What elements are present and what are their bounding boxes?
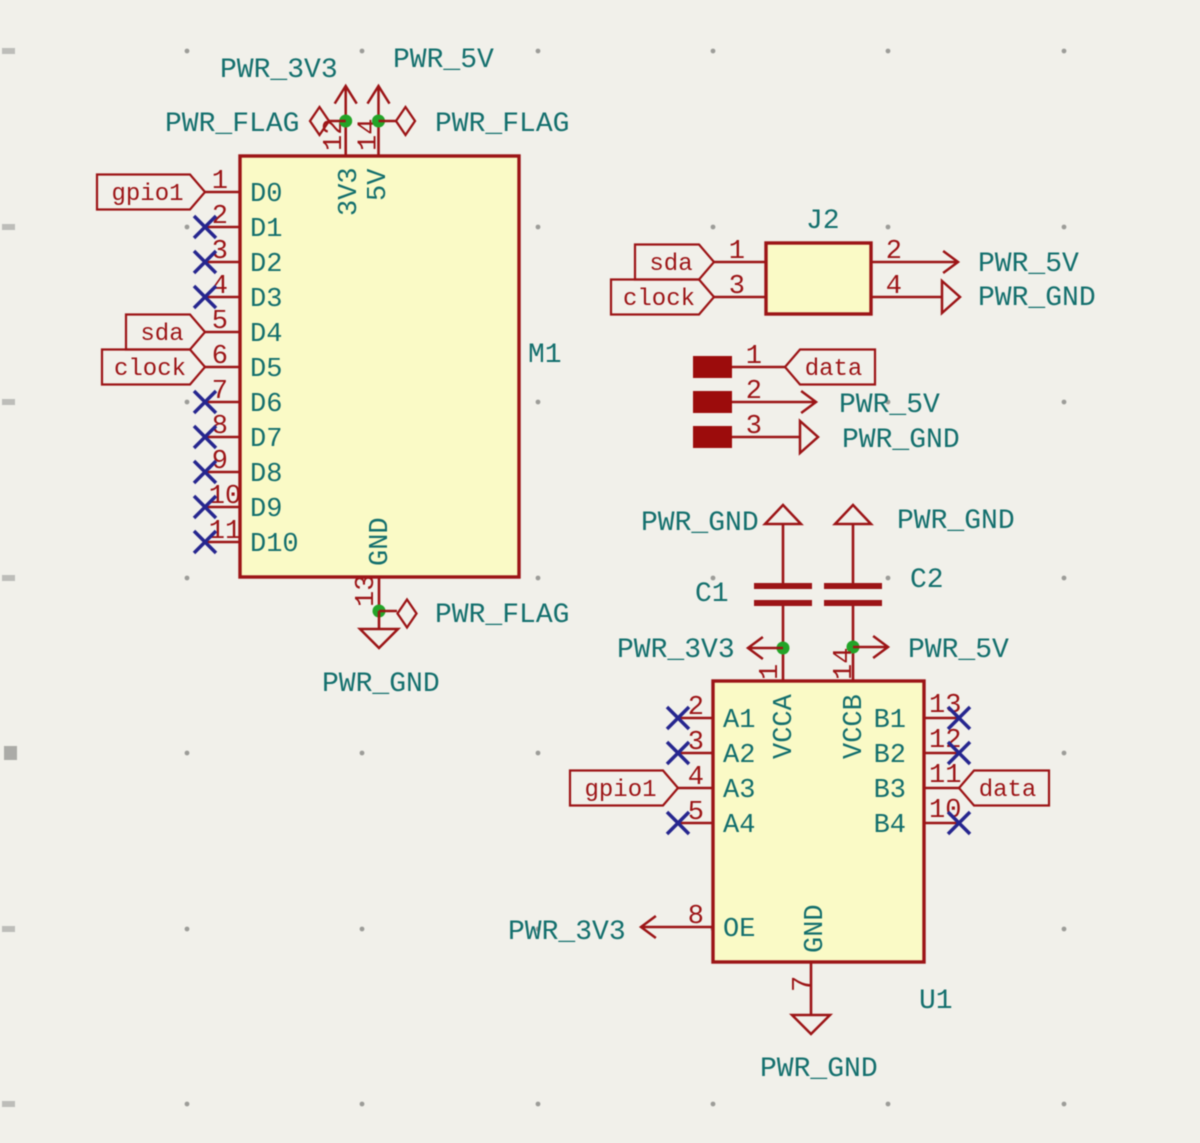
reference designator C2 <box>910 565 944 596</box>
svg-text:M1: M1 <box>528 340 562 371</box>
pad pin number 2 <box>746 377 762 407</box>
M1 pin 2 stub <box>205 226 240 229</box>
reference designator U1 <box>919 986 953 1017</box>
U1 pin 2 stub <box>678 717 713 720</box>
U1 pin number 13 <box>929 691 961 721</box>
no-connect X on U1 pin 10 <box>948 812 970 834</box>
label PWR_GND below U1 <box>760 1054 878 1085</box>
svg-text:B4: B4 <box>874 811 906 841</box>
power symbol PWR_5V at J2 pin 2 <box>906 251 958 273</box>
J2 pin 3 stub <box>714 296 766 299</box>
component J2 body <box>766 243 871 314</box>
U1 pin number 4 <box>688 763 704 793</box>
M1 pin 1 stub <box>205 191 240 194</box>
M1 pin name D3 <box>250 285 282 315</box>
svg-text:C2: C2 <box>910 565 944 596</box>
connector pad 3 <box>693 426 732 448</box>
M1 pin 7 stub <box>205 401 240 404</box>
net label clock (M1 pin 6) <box>102 350 205 385</box>
U1 pin number 10 <box>929 796 961 826</box>
wire J2 pin4 to PWR_GND <box>906 296 942 299</box>
M1 pin 3 stub <box>205 261 240 264</box>
svg-text:PWR_3V3: PWR_3V3 <box>508 917 626 948</box>
svg-text:PWR_GND: PWR_GND <box>897 506 1015 537</box>
svg-text:D2: D2 <box>250 250 282 280</box>
power symbol PWR_GND at J2 pin 4 <box>942 281 960 313</box>
svg-text:U1: U1 <box>919 986 953 1017</box>
net label gpio1 (U1 pin 4) <box>570 771 678 806</box>
svg-text:data: data <box>805 356 863 383</box>
svg-text:PWR_GND: PWR_GND <box>322 669 440 700</box>
M1 pin number 7 <box>212 377 228 407</box>
U1 pin 5 stub <box>678 822 713 825</box>
junction below C2 <box>847 641 860 654</box>
svg-text:VCCA: VCCA <box>770 693 800 759</box>
no-connect X on pin 2 <box>194 216 216 238</box>
label PWR_5V at C2 <box>908 635 1009 666</box>
M1 pin number 1 <box>212 167 228 197</box>
M1 pin 13 stub (GND) <box>378 577 381 612</box>
no-connect X on U1 pin 13 <box>948 707 970 729</box>
M1 pin name D6 <box>250 390 282 420</box>
svg-text:A4: A4 <box>723 811 755 841</box>
junction at M1 GND <box>373 605 386 618</box>
no-connect X on U1 pin 5 <box>667 812 689 834</box>
U1 pin name A4 <box>723 811 755 841</box>
no-connect X on pin 11 <box>194 531 216 553</box>
label PWR_GND at J2 <box>978 283 1096 314</box>
svg-text:D10: D10 <box>250 530 299 560</box>
svg-text:D4: D4 <box>250 320 282 350</box>
svg-text:4: 4 <box>886 272 902 302</box>
svg-text:clock: clock <box>623 286 695 313</box>
no-connect X on pin 9 <box>194 461 216 483</box>
U1 pin name B1 <box>874 706 906 736</box>
reference designator C1 <box>695 579 729 610</box>
wire pin 12 (3V3) stub <box>344 121 347 156</box>
pin number 12 <box>320 119 350 151</box>
M1 pin name D10 <box>250 530 299 560</box>
svg-text:GND: GND <box>366 517 396 566</box>
connector pad 1 <box>693 356 732 378</box>
M1 pin number 13 <box>352 575 382 607</box>
svg-text:3V3: 3V3 <box>335 167 365 216</box>
svg-text:PWR_FLAG: PWR_FLAG <box>435 600 569 631</box>
svg-text:1: 1 <box>212 167 228 197</box>
M1 pin number 8 <box>212 412 228 442</box>
M1 pin number 9 <box>212 447 228 477</box>
M1 pin number 11 <box>209 517 241 547</box>
U1 pin 12 stub <box>924 752 959 755</box>
component M1 body <box>240 156 519 577</box>
J2 pin number 4 <box>886 272 902 302</box>
J2 pin 1 stub <box>714 261 766 264</box>
power symbol PWR_3V3 at OE <box>641 916 678 938</box>
svg-text:C1: C1 <box>695 579 729 610</box>
U1 pin name A2 <box>723 741 755 771</box>
no-connect X on U1 pin 2 <box>667 707 689 729</box>
svg-text:3: 3 <box>688 728 704 758</box>
svg-text:data: data <box>979 777 1037 804</box>
U1 pin number 11 <box>929 761 961 791</box>
svg-text:D7: D7 <box>250 425 282 455</box>
M1 pin number 2 <box>212 202 228 232</box>
svg-text:D1: D1 <box>250 215 282 245</box>
svg-text:1: 1 <box>756 664 786 680</box>
no-connect X on U1 pin 12 <box>948 742 970 764</box>
U1 pin name B4 <box>874 811 906 841</box>
wire C1 bottom <box>782 606 785 681</box>
U1 pin 4 stub <box>678 787 713 790</box>
J2 pin 4 stub <box>871 296 906 299</box>
label PWR_3V3 at OE <box>508 917 626 948</box>
svg-text:PWR_3V3: PWR_3V3 <box>617 635 735 666</box>
svg-text:PWR_5V: PWR_5V <box>978 249 1079 280</box>
label PWR_GND above C1 <box>641 508 759 539</box>
svg-text:A3: A3 <box>723 776 755 806</box>
net label data (pad 1) <box>785 350 875 385</box>
wire to PWR_FLAG <box>379 610 397 613</box>
svg-text:PWR_3V3: PWR_3V3 <box>220 55 338 86</box>
U1 pin number 7 <box>789 976 819 992</box>
svg-text:A2: A2 <box>723 741 755 771</box>
U1 pin number 5 <box>688 798 704 828</box>
U1 pin 3 stub <box>678 752 713 755</box>
svg-text:PWR_5V: PWR_5V <box>393 45 494 76</box>
svg-text:5: 5 <box>688 798 704 828</box>
M1 pin name D8 <box>250 460 282 490</box>
power symbol PWR_5V arrow <box>368 86 390 121</box>
U1 pin name VCCB <box>840 694 870 759</box>
capacitor C1 plates <box>754 583 812 606</box>
wire pad3 to PWR_GND <box>732 436 800 439</box>
M1 pin 4 stub <box>205 296 240 299</box>
svg-text:OE: OE <box>723 915 755 945</box>
svg-text:sda: sda <box>649 251 692 278</box>
svg-text:GND: GND <box>801 904 831 953</box>
reference designator M1 <box>528 340 562 371</box>
net label sda (M1 pin 5) <box>126 315 205 350</box>
M1 pin 8 stub <box>205 436 240 439</box>
M1 pin name D4 <box>250 320 282 350</box>
svg-text:D5: D5 <box>250 355 282 385</box>
U1 pin 13 stub <box>924 717 959 720</box>
U1 pin name A1 <box>723 706 755 736</box>
svg-text:gpio1: gpio1 <box>584 777 656 804</box>
svg-text:1: 1 <box>729 237 745 267</box>
pin number 14 <box>355 119 385 151</box>
M1 pin name D2 <box>250 250 282 280</box>
power symbol PWR_GND at pad 3 <box>800 421 818 453</box>
M1 pin name D9 <box>250 495 282 525</box>
power flag PWR_FLAG right <box>396 107 415 135</box>
svg-text:B3: B3 <box>874 776 906 806</box>
svg-text:D3: D3 <box>250 285 282 315</box>
power symbol PWR_3V3 arrow <box>335 86 357 121</box>
component U1 body <box>713 681 924 962</box>
pad pin number 1 <box>746 342 762 372</box>
connector pad 2 <box>693 391 732 413</box>
M1 pin number 10 <box>209 482 241 512</box>
svg-text:3: 3 <box>729 272 745 302</box>
label PWR_GND at pad 3 <box>842 425 960 456</box>
svg-text:VCCB: VCCB <box>840 694 870 759</box>
power symbol PWR_3V3 at C1 <box>748 637 783 659</box>
label PWR_5V at pad 2 <box>839 390 940 421</box>
U1 pin number 1 <box>756 664 786 680</box>
label PWR_5V <box>393 45 494 76</box>
U1 pin 10 stub <box>924 822 959 825</box>
svg-text:sda: sda <box>140 321 183 348</box>
svg-text:PWR_5V: PWR_5V <box>908 635 1009 666</box>
U1 pin name OE <box>723 915 755 945</box>
no-connect X on pin 3 <box>194 251 216 273</box>
svg-text:11: 11 <box>929 761 961 791</box>
J2 pin 2 stub <box>871 261 906 264</box>
svg-text:5: 5 <box>212 307 228 337</box>
svg-text:4: 4 <box>688 763 704 793</box>
svg-text:5V: 5V <box>364 168 394 201</box>
net label data (U1 pin 11) <box>959 771 1049 806</box>
svg-text:PWR_GND: PWR_GND <box>842 425 960 456</box>
M1 pin 6 stub <box>205 366 240 369</box>
svg-text:14: 14 <box>830 648 860 680</box>
U1 pin name VCCA <box>770 693 800 759</box>
svg-text:J2: J2 <box>806 206 840 237</box>
label PWR_GND below M1 <box>322 669 440 700</box>
svg-text:D0: D0 <box>250 180 282 210</box>
svg-text:7: 7 <box>789 976 819 992</box>
power symbol PWR_GND above C1 <box>765 505 801 583</box>
power symbol PWR_GND below U1 <box>792 997 830 1034</box>
junction at 3V3 <box>339 115 352 128</box>
U1 pin number 14 <box>830 648 860 680</box>
U1 pin 7 stub <box>810 962 813 997</box>
no-connect X on pin 10 <box>194 496 216 518</box>
svg-text:PWR_FLAG: PWR_FLAG <box>165 109 299 140</box>
M1 pin name D7 <box>250 425 282 455</box>
label PWR_GND above C2 <box>897 506 1015 537</box>
J2 pin number 1 <box>729 237 745 267</box>
M1 pin number 3 <box>212 237 228 267</box>
svg-text:2: 2 <box>886 237 902 267</box>
U1 pin name B3 <box>874 776 906 806</box>
power flag left wire <box>329 120 346 123</box>
M1 pin number 5 <box>212 307 228 337</box>
label PWR_FLAG left <box>165 109 299 140</box>
power flag right wire <box>379 120 397 123</box>
wire pin 14 (5V) stub <box>377 121 380 156</box>
M1 pin 9 stub <box>205 471 240 474</box>
M1 pin number 6 <box>212 342 228 372</box>
svg-text:8: 8 <box>688 902 704 932</box>
power flag PWR_FLAG left <box>310 107 329 135</box>
svg-text:A1: A1 <box>723 706 755 736</box>
label PWR_FLAG bottom <box>435 600 569 631</box>
svg-text:PWR_FLAG: PWR_FLAG <box>435 109 569 140</box>
label PWR_5V at J2 <box>978 249 1079 280</box>
U1 pin 8 stub <box>678 926 713 929</box>
power symbol PWR_5V at C2 <box>853 636 888 658</box>
M1 pin name D0 <box>250 180 282 210</box>
net label clock (J2 pin 3) <box>611 280 714 315</box>
pad pin number 3 <box>746 412 762 442</box>
no-connect X on pin 8 <box>194 426 216 448</box>
svg-text:B1: B1 <box>874 706 906 736</box>
power symbol PWR_GND below M1 <box>360 611 398 648</box>
svg-text:PWR_GND: PWR_GND <box>760 1054 878 1085</box>
U1 pin name A3 <box>723 776 755 806</box>
label PWR_FLAG right <box>435 109 569 140</box>
U1 pin number 8 <box>688 902 704 932</box>
net label gpio1 (M1 pin 1) <box>97 175 205 210</box>
no-connect X on pin 4 <box>194 286 216 308</box>
label PWR_3V3 <box>220 55 338 86</box>
U1 pin name GND <box>801 904 831 953</box>
pin name 3V3 <box>335 167 365 216</box>
J2 pin number 2 <box>886 237 902 267</box>
power symbol PWR_5V at pad 2 <box>732 391 816 413</box>
M1 pin name D1 <box>250 215 282 245</box>
svg-text:PWR_GND: PWR_GND <box>978 283 1096 314</box>
wire pad1 to data label <box>732 366 785 369</box>
no-connect X on U1 pin 3 <box>667 742 689 764</box>
svg-text:2: 2 <box>688 693 704 723</box>
U1 pin number 12 <box>929 726 961 756</box>
U1 pin number 3 <box>688 728 704 758</box>
power flag PWR_FLAG bottom <box>398 600 417 628</box>
label PWR_3V3 at C1 <box>617 635 735 666</box>
M1 pin number 4 <box>212 272 228 302</box>
M1 pin 11 stub <box>205 541 240 544</box>
J2 pin number 3 <box>729 272 745 302</box>
svg-text:6: 6 <box>212 342 228 372</box>
M1 pin 5 stub <box>205 331 240 334</box>
M1 pin name GND <box>366 517 396 566</box>
U1 pin name B2 <box>874 741 906 771</box>
wire C2 bottom <box>852 606 855 681</box>
M1 pin name D5 <box>250 355 282 385</box>
svg-text:D9: D9 <box>250 495 282 525</box>
svg-text:PWR_5V: PWR_5V <box>839 390 940 421</box>
M1 pin 10 stub <box>205 506 240 509</box>
junction below C1 <box>777 642 790 655</box>
power symbol PWR_GND above C2 <box>835 505 871 583</box>
svg-text:13: 13 <box>352 575 382 607</box>
svg-text:clock: clock <box>114 356 186 383</box>
svg-text:1: 1 <box>746 342 762 372</box>
junction at 5V <box>372 115 385 128</box>
no-connect X on pin 7 <box>194 391 216 413</box>
net label sda (J2 pin 1) <box>635 245 714 280</box>
svg-text:D6: D6 <box>250 390 282 420</box>
svg-text:PWR_GND: PWR_GND <box>641 508 759 539</box>
U1 pin 11 stub <box>924 787 959 790</box>
reference designator J2 <box>806 206 840 237</box>
svg-text:B2: B2 <box>874 741 906 771</box>
pin name 5V <box>364 168 394 201</box>
svg-text:D8: D8 <box>250 460 282 490</box>
U1 pin number 2 <box>688 693 704 723</box>
capacitor C2 plates <box>824 583 882 606</box>
svg-text:gpio1: gpio1 <box>111 181 183 208</box>
